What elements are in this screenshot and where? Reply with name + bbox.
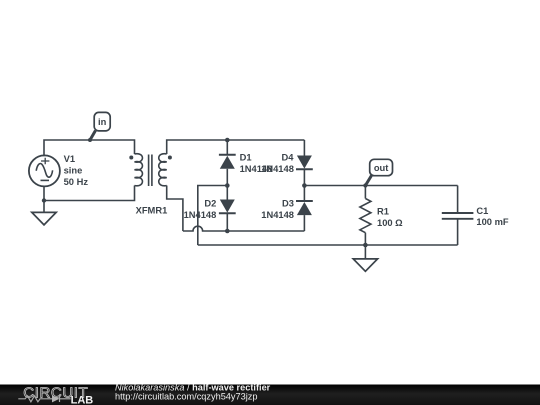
diode D1 <box>219 140 236 186</box>
secondary winding <box>159 154 167 186</box>
junction dot D1/D2 <box>225 183 230 188</box>
junction dot top rail at D1 <box>225 138 230 143</box>
V1 value labels <box>64 154 89 187</box>
logo wire squiggle with diode <box>18 396 70 403</box>
junction dot at in <box>88 138 92 142</box>
svg-text:R1: R1 <box>377 206 389 216</box>
junction dot R1 bottom <box>363 243 368 248</box>
primary winding <box>135 154 143 186</box>
node flag in <box>90 112 110 140</box>
junction dot V1 bottom <box>42 198 46 202</box>
wire ground node to transformer primary bottom <box>44 186 135 201</box>
svg-text:V1: V1 <box>64 154 75 164</box>
svg-text:1N4148: 1N4148 <box>261 210 294 220</box>
mid rail left segment <box>198 186 228 246</box>
svg-text:D2: D2 <box>204 199 216 209</box>
svg-text:100 Ω: 100 Ω <box>377 218 403 228</box>
junction dot out <box>363 183 367 187</box>
mid rail right segment to C1 <box>304 185 457 187</box>
bottom rail <box>198 244 458 246</box>
svg-text:LAB: LAB <box>71 394 94 405</box>
node flag out <box>365 159 392 185</box>
resistor R1 <box>360 186 371 246</box>
svg-text:1N4148: 1N4148 <box>261 164 294 174</box>
svg-text:in: in <box>98 117 107 127</box>
svg-text:D1: D1 <box>240 152 252 162</box>
diode D3 <box>296 186 313 232</box>
svg-text:D4: D4 <box>282 152 295 162</box>
ground (right) <box>353 245 377 271</box>
wire V1 bottom to ground node <box>43 187 45 201</box>
svg-text:C1: C1 <box>476 206 488 216</box>
svg-text:100 mF: 100 mF <box>476 217 508 227</box>
wire bridge bottom with hop over vertical <box>183 226 305 231</box>
phase dot primary <box>129 156 133 160</box>
junction dot D2 bottom <box>225 229 230 234</box>
footer bar <box>0 385 540 405</box>
wire secondary top to bridge top rail <box>167 140 305 154</box>
junction dot D4/D3 <box>302 183 307 188</box>
wire secondary bottom jog <box>167 186 183 232</box>
svg-text:D3: D3 <box>282 199 294 209</box>
wire V1 top to transformer primary top <box>44 140 135 156</box>
svg-text:XFMR1: XFMR1 <box>136 206 168 216</box>
core <box>149 155 152 187</box>
svg-text:50 Hz: 50 Hz <box>64 177 89 187</box>
svg-text:out: out <box>374 163 389 173</box>
diode D4 <box>296 140 313 186</box>
svg-text:sine: sine <box>64 165 83 175</box>
diode D2 <box>219 186 236 232</box>
svg-text:1N4148: 1N4148 <box>184 210 217 220</box>
ground (left) <box>32 201 56 225</box>
svg-text:http://circuitlab.com/cqzyh54y: http://circuitlab.com/cqzyh54y73jzp <box>115 392 257 402</box>
transformer XFMR1 <box>129 154 172 186</box>
voltage source V1 <box>29 155 60 186</box>
phase dot secondary <box>168 156 172 160</box>
capacitor C1 <box>442 186 474 246</box>
